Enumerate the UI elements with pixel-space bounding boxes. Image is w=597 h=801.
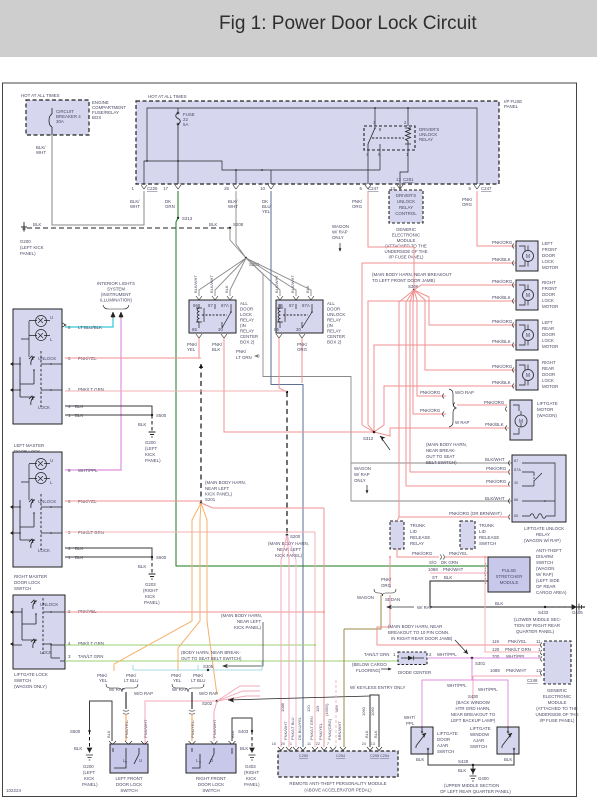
generic electronic module box bottom right xyxy=(544,641,571,684)
svg-text:ILLUMINATION): ILLUMINATION) xyxy=(100,298,132,303)
svg-text:S201: S201 xyxy=(205,497,216,502)
svg-text:PNK/ORG: PNK/ORG xyxy=(484,400,505,405)
wire PNK/YEL from lock relay 85 xyxy=(198,338,200,358)
svg-text:30: 30 xyxy=(218,327,223,332)
svg-text:FRONT: FRONT xyxy=(542,286,557,291)
svg-text:YEL: YEL xyxy=(99,678,108,683)
svg-text:PNK/ORG: PNK/ORG xyxy=(492,364,513,369)
svg-text:U: U xyxy=(139,758,142,763)
svg-text:YEL: YEL xyxy=(187,347,196,352)
svg-text:LEFT: LEFT xyxy=(542,320,553,325)
wire BLK/WHT from breaker to C225 pin 1 xyxy=(52,135,144,225)
svg-text:UNLOCK: UNLOCK xyxy=(397,199,415,204)
svg-text:(WAGON: (WAGON xyxy=(536,566,554,571)
svg-text:SWITCH: SWITCH xyxy=(14,678,31,683)
svg-text:BREAKOUT TO 10 PIN CONN.: BREAKOUT TO 10 PIN CONN. xyxy=(388,630,449,635)
svg-text:PANEL): PANEL) xyxy=(20,251,36,256)
svg-text:S500: S500 xyxy=(156,413,167,418)
svg-text:PANEL): PANEL) xyxy=(144,600,160,605)
ground G203 xyxy=(149,574,156,579)
wire PNK/YEL RM pin6 to riser xyxy=(65,500,201,502)
wire PNK/LT GRN RM pin3 to riser xyxy=(65,531,315,533)
svg-text:RELAY: RELAY xyxy=(240,329,254,334)
GEM pin wire labels xyxy=(490,639,541,683)
svg-text:WINDOW: WINDOW xyxy=(470,732,490,737)
wire DK BLU/YEL riser xyxy=(271,191,303,747)
svg-text:S600: S600 xyxy=(156,555,167,560)
svg-text:LEFT FRONT: LEFT FRONT xyxy=(116,776,143,781)
svg-text:(MAIN BODY HARN, NEAR: (MAIN BODY HARN, NEAR xyxy=(388,624,442,629)
svg-text:PNK/ORG: PNK/ORG xyxy=(420,390,441,395)
svg-text:DK BLU/YEL: DK BLU/YEL xyxy=(297,716,302,740)
svg-text:DOOR: DOOR xyxy=(542,292,555,297)
wire PNK/YEL LM pin6 xyxy=(65,357,201,359)
driver's unlock relay control box xyxy=(389,190,423,223)
svg-text:85: 85 xyxy=(514,514,518,518)
ground G200 (left kick panel) xyxy=(21,222,27,231)
liftgate window ajar switch xyxy=(497,727,519,754)
svg-text:PNK/: PNK/ xyxy=(381,577,392,582)
unlock contact xyxy=(29,356,34,365)
svg-text:22: 22 xyxy=(316,742,320,746)
svg-text:ONLY: ONLY xyxy=(332,235,344,240)
liftgate unlock relay box xyxy=(512,455,566,522)
svg-text:FRONT: FRONT xyxy=(542,247,557,252)
svg-text:PNK/BLK: PNK/BLK xyxy=(492,380,511,385)
svg-text:LT BLU: LT BLU xyxy=(124,678,138,683)
circuit breaker CB4 box xyxy=(26,100,89,135)
svg-text:YEL: YEL xyxy=(262,209,271,214)
svg-text:G405: G405 xyxy=(572,610,583,615)
svg-text:CONTROL: CONTROL xyxy=(395,211,417,216)
svg-text:DOOR: DOOR xyxy=(327,307,340,312)
trunk lid release relay box xyxy=(390,521,404,549)
svg-text:HOT AT ALL TIMES: HOT AT ALL TIMES xyxy=(148,94,187,99)
wire labels PNK/ORG PNK/BLK by motors xyxy=(420,240,513,427)
svg-text:QUARTER PANEL): QUARTER PANEL) xyxy=(516,629,555,634)
svg-text:W/O RAP: W/O RAP xyxy=(134,691,153,696)
svg-text:NEAR BREAKOUT TO: NEAR BREAKOUT TO xyxy=(451,712,496,717)
svg-text:LIFTGATE UNLOCK: LIFTGATE UNLOCK xyxy=(524,526,564,531)
svg-text:1088: 1088 xyxy=(490,668,500,673)
svg-text:TRUNK: TRUNK xyxy=(410,523,425,528)
svg-text:(IN: (IN xyxy=(327,323,333,328)
svg-text:RIGHT FRONT: RIGHT FRONT xyxy=(196,776,226,781)
svg-text:ANTI-THEFT: ANTI-THEFT xyxy=(536,548,562,553)
svg-text:STRETCHER: STRETCHER xyxy=(496,574,523,579)
svg-text:BLK: BLK xyxy=(138,564,146,569)
svg-text:BOX 2): BOX 2) xyxy=(327,340,342,345)
svg-text:BLK: BLK xyxy=(138,422,146,427)
svg-text:30: 30 xyxy=(514,481,518,485)
svg-text:S200: S200 xyxy=(290,534,301,539)
svg-text:ELECTRONIC: ELECTRONIC xyxy=(392,233,420,238)
relay internals xyxy=(522,463,555,516)
wire BLK pins 4/1 to S500 xyxy=(65,406,152,415)
svg-text:S433: S433 xyxy=(538,610,549,615)
wire PNK/LT GRN riser to module pin 11 xyxy=(314,532,316,747)
right rear door lock motor xyxy=(516,360,538,390)
svg-text:ORG: ORG xyxy=(352,204,363,209)
svg-text:1: 1 xyxy=(393,652,396,657)
svg-text:SEDAN: SEDAN xyxy=(385,597,400,602)
svg-text:(LEFT SIDE: (LEFT SIDE xyxy=(536,578,560,583)
svg-text:LID: LID xyxy=(479,529,486,534)
right master door lock switch xyxy=(13,452,62,567)
svg-text:119: 119 xyxy=(315,705,320,712)
svg-text:C247: C247 xyxy=(481,186,492,191)
svg-text:PNK/LT GRN: PNK/LT GRN xyxy=(505,647,531,652)
wire PNK/ORG (OR BRN/WHT) into 85 xyxy=(399,516,510,518)
wire gray staircase to liftgate unlock relay xyxy=(246,258,512,463)
svg-text:LIFTGATE: LIFTGATE xyxy=(437,731,458,736)
svg-text:LOCK: LOCK xyxy=(38,405,50,410)
svg-text:RIGHT MASTER: RIGHT MASTER xyxy=(14,574,47,579)
svg-text:I/P FUSE PANEL): I/P FUSE PANEL) xyxy=(540,718,576,723)
svg-text:BLK: BLK xyxy=(416,757,424,762)
relay coil xyxy=(405,128,411,144)
svg-text:PNK/BLK: PNK/BLK xyxy=(492,257,511,262)
wire PNK/LT BLU pale blue distribution xyxy=(133,661,262,670)
svg-text:NEAR LEFT: NEAR LEFT xyxy=(277,547,301,552)
svg-text:BLK: BLK xyxy=(504,757,512,762)
svg-text:WHT: WHT xyxy=(130,204,140,209)
svg-text:DOOR: DOOR xyxy=(542,332,555,337)
left front door lock switch box xyxy=(110,744,148,773)
liftgate door ajar switch xyxy=(411,727,433,754)
svg-text:12: 12 xyxy=(536,668,541,673)
svg-text:KICK: KICK xyxy=(84,776,94,781)
svg-text:LIFTGATE LOCK: LIFTGATE LOCK xyxy=(14,672,48,677)
svg-text:REAR: REAR xyxy=(542,366,554,371)
svg-text:S429: S429 xyxy=(458,759,469,764)
rotated labels BLK/WHT on relay coil wires xyxy=(193,275,310,293)
svg-text:PNK/ORG: PNK/ORG xyxy=(420,408,441,413)
svg-text:RELAY: RELAY xyxy=(419,137,433,142)
svg-text:W/ KEYLESS ENTRY ONLY: W/ KEYLESS ENTRY ONLY xyxy=(350,685,405,690)
svg-text:PNK/YEL: PNK/YEL xyxy=(508,639,527,644)
wire BLK right front switch to S403 xyxy=(232,718,252,741)
svg-text:TRUNK: TRUNK xyxy=(479,523,494,528)
svg-text:(INSTRUMENT: (INSTRUMENT xyxy=(101,292,132,297)
svg-text:G200: G200 xyxy=(83,764,94,769)
connector arcs at motor inputs xyxy=(443,244,515,431)
svg-text:TAN/LT GRN: TAN/LT GRN xyxy=(364,652,389,657)
svg-text:HOT AT ALL TIMES: HOT AT ALL TIMES xyxy=(21,93,60,98)
svg-text:17: 17 xyxy=(163,186,168,191)
svg-text:20: 20 xyxy=(281,742,285,746)
wire fan S200 to module pins PNK/WHT PNK/LT BLU xyxy=(281,535,287,747)
connector pin row under fuse panel xyxy=(141,185,480,189)
svg-text:BOX: BOX xyxy=(92,115,101,120)
svg-text:MOTOR: MOTOR xyxy=(542,304,558,309)
svg-text:LOCK: LOCK xyxy=(542,298,554,303)
svg-text:(WAGON): (WAGON) xyxy=(537,413,557,418)
svg-text:U: U xyxy=(50,315,53,320)
svg-text:LOCK: LOCK xyxy=(542,338,554,343)
left master door lock switch xyxy=(13,309,62,424)
arrow to interior lights 1 xyxy=(111,312,115,318)
svg-text:LT BLU/BLK: LT BLU/BLK xyxy=(78,325,102,330)
pins left master xyxy=(62,323,66,327)
wire BRN/WHT olive riser xyxy=(343,629,345,747)
title bar xyxy=(0,0,597,57)
svg-text:RELAY: RELAY xyxy=(399,205,413,210)
svg-text:RIGHT: RIGHT xyxy=(542,280,556,285)
wire WHT/PPL violet to right master xyxy=(65,318,121,470)
svg-text:OF LEFT REAR QUARTER PANEL): OF LEFT REAR QUARTER PANEL) xyxy=(440,789,511,794)
svg-text:(RIGHT: (RIGHT xyxy=(143,588,158,593)
ground G200 left kick xyxy=(149,432,156,437)
wire 1088 PNK/WHT to GEM 12 xyxy=(473,676,541,700)
svg-text:M: M xyxy=(526,293,530,299)
svg-text:WAGON: WAGON xyxy=(354,466,371,471)
all door unlock relay box xyxy=(276,300,323,333)
svg-text:1: 1 xyxy=(290,742,292,746)
svg-text:BLK: BLK xyxy=(212,347,220,352)
svg-text:ORG: ORG xyxy=(462,202,473,207)
svg-text:BLK: BLK xyxy=(224,285,229,293)
svg-text:120: 120 xyxy=(306,705,311,712)
svg-text:TION OF RIGHT REAR: TION OF RIGHT REAR xyxy=(514,623,560,628)
svg-text:AJAR: AJAR xyxy=(437,743,448,748)
wire BLK ajar switches to S429 xyxy=(428,754,514,765)
svg-text:MOTOR: MOTOR xyxy=(542,265,558,270)
wire TAN/LT GRN LG pin3 xyxy=(65,658,401,661)
svg-text:S208: S208 xyxy=(233,222,244,227)
svg-text:G403: G403 xyxy=(245,764,256,769)
svg-text:PANEL: PANEL xyxy=(504,104,519,109)
wire fan S201 PNK/YEL to front switch braces xyxy=(114,503,201,671)
wire BLK left front switch to S500 xyxy=(90,701,113,741)
svg-text:BLK: BLK xyxy=(373,730,378,738)
svg-text:BLK: BLK xyxy=(209,222,217,227)
svg-text:(WAGON ONLY): (WAGON ONLY) xyxy=(14,684,47,689)
svg-text:(BACK WINDOW: (BACK WINDOW xyxy=(456,700,491,705)
svg-text:AJAR: AJAR xyxy=(473,738,484,743)
svg-text:10: 10 xyxy=(260,186,265,191)
svg-text:M: M xyxy=(526,373,530,379)
wire PNK/ORG pin5 C247 to LF motor xyxy=(477,191,516,246)
svg-text:W/O RAP: W/O RAP xyxy=(455,390,474,395)
svg-text:RELAY: RELAY xyxy=(240,318,254,323)
svg-text:W/O RAP: W/O RAP xyxy=(199,691,218,696)
svg-text:11: 11 xyxy=(307,742,311,746)
ground G403 right front xyxy=(249,748,256,760)
arrow to interior lights 2 xyxy=(119,312,123,318)
svg-text:WHT/PPL: WHT/PPL xyxy=(447,683,467,688)
svg-text:PNK/WHT: PNK/WHT xyxy=(443,567,464,572)
svg-text:C281: C281 xyxy=(403,177,414,182)
svg-text:C225: C225 xyxy=(147,186,158,191)
svg-text:3: 3 xyxy=(68,654,71,659)
svg-text:6: 6 xyxy=(360,186,363,191)
svg-text:(WAGON W/ RAP): (WAGON W/ RAP) xyxy=(524,538,561,543)
svg-text:S305: S305 xyxy=(203,664,214,669)
svg-text:WAGON: WAGON xyxy=(332,224,349,229)
diode center box xyxy=(398,652,427,665)
svg-text:TAN/LT GRN: TAN/LT GRN xyxy=(78,654,103,659)
svg-text:DRIVER'S: DRIVER'S xyxy=(396,193,416,198)
svg-text:NEAR LEFT: NEAR LEFT xyxy=(205,486,229,491)
svg-text:G200: G200 xyxy=(20,239,31,244)
svg-text:REMOTE ANTI-THEFT PERSONALITY: REMOTE ANTI-THEFT PERSONALITY MODULE xyxy=(289,781,386,786)
svg-text:(LEFT: (LEFT xyxy=(145,446,158,451)
svg-text:RELAY: RELAY xyxy=(327,318,341,323)
svg-text:C250: C250 xyxy=(299,754,308,758)
svg-text:CENTER: CENTER xyxy=(240,334,258,339)
svg-text:PNK/ORG (OR BRN/WHT): PNK/ORG (OR BRN/WHT) xyxy=(449,511,502,516)
dashed option wire 1 : lock 85 to S201 xyxy=(200,364,202,503)
svg-text:KICK PANEL): KICK PANEL) xyxy=(234,625,262,630)
svg-text:RELEASE: RELEASE xyxy=(410,535,430,540)
wire ST BLK into pulse stretcher xyxy=(430,581,585,607)
wire PNK/ORG into 87A from S306 fan xyxy=(410,471,510,473)
svg-text:(MAIN BODY HARN, NEAR BREAKOUT: (MAIN BODY HARN, NEAR BREAKOUT xyxy=(372,272,452,277)
svg-text:SWITCH: SWITCH xyxy=(202,788,219,793)
svg-text:W/ RAP: W/ RAP xyxy=(109,687,125,692)
module pin connectors xyxy=(278,747,382,751)
svg-text:DOOR LOCK: DOOR LOCK xyxy=(198,782,224,787)
svg-text:G203: G203 xyxy=(145,582,156,587)
svg-text:S/O: S/O xyxy=(429,560,437,565)
svg-text:LOCK: LOCK xyxy=(542,378,554,383)
svg-text:KICK: KICK xyxy=(145,452,155,457)
svg-text:ELECTRONIC: ELECTRONIC xyxy=(543,694,571,699)
svg-text:DK GRN: DK GRN xyxy=(441,560,458,565)
svg-text:SWITCH: SWITCH xyxy=(437,749,454,754)
svg-text:WHT/PPL: WHT/PPL xyxy=(478,687,498,692)
svg-text:W/ RAP: W/ RAP xyxy=(417,605,433,610)
svg-text:BLK: BLK xyxy=(74,746,82,751)
svg-text:CARGO AREA): CARGO AREA) xyxy=(536,590,567,595)
svg-text:87: 87 xyxy=(289,303,294,308)
svg-text:PNK/ORG: PNK/ORG xyxy=(486,466,507,471)
svg-text:CENTER: CENTER xyxy=(327,334,345,339)
wire fan S306 PNK/ORG to motors xyxy=(399,285,516,517)
dashed option wire 2 : to S200 xyxy=(286,391,288,393)
svg-text:SWITCH: SWITCH xyxy=(470,744,487,749)
svg-text:(ATTACHED TO THE: (ATTACHED TO THE xyxy=(385,244,427,249)
svg-text:ONLY: ONLY xyxy=(354,478,366,483)
svg-text:102224: 102224 xyxy=(6,788,22,793)
svg-text:BLK: BLK xyxy=(305,285,310,293)
svg-text:5: 5 xyxy=(469,186,472,191)
wire 1088 PNK/WHT into pulse stretcher xyxy=(430,572,488,574)
svg-text:ALL: ALL xyxy=(240,301,248,306)
svg-text:87: 87 xyxy=(514,459,518,463)
svg-text:BELT SWITCH): BELT SWITCH) xyxy=(426,460,457,465)
pink option feeds into S202 xyxy=(217,686,260,701)
brace W/O RAP / W RAP liftgate options xyxy=(449,389,456,427)
svg-text:1060: 1060 xyxy=(370,706,375,716)
node S204 xyxy=(245,257,247,259)
wire fan S204 to relay coils BLK/WHT xyxy=(199,258,311,296)
inner wire pin1 to fuse xyxy=(144,161,380,184)
black arrow into S202 from keyless box xyxy=(228,696,370,700)
svg-text:PNK/LT BLU: PNK/LT BLU xyxy=(290,717,295,740)
svg-text:PNK/ORG: PNK/ORG xyxy=(412,551,433,556)
svg-text:5A: 5A xyxy=(183,122,188,127)
svg-text:HTR GRD HARN,: HTR GRD HARN, xyxy=(456,706,491,711)
svg-text:LOCK: LOCK xyxy=(542,259,554,264)
svg-text:DISARM: DISARM xyxy=(536,554,553,559)
svg-text:PNK/ORG: PNK/ORG xyxy=(486,479,507,484)
svg-text:MOTOR: MOTOR xyxy=(542,344,558,349)
svg-text:BRN/WHT: BRN/WHT xyxy=(337,721,342,740)
svg-text:G200: G200 xyxy=(145,440,156,445)
circuit breaker symbol xyxy=(51,108,53,135)
svg-text:C247: C247 xyxy=(368,186,379,191)
svg-text:ST: ST xyxy=(432,575,438,580)
svg-text:W RAP: W RAP xyxy=(455,420,469,425)
svg-text:SWITCH: SWITCH xyxy=(120,788,137,793)
svg-text:(RIGHT: (RIGHT xyxy=(244,770,259,775)
svg-text:DOOR: DOOR xyxy=(542,253,555,258)
svg-text:PNK/YEL: PNK/YEL xyxy=(449,551,468,556)
svg-text:PANEL): PANEL) xyxy=(244,782,260,787)
svg-text:OUT TO SEAT: OUT TO SEAT xyxy=(426,454,455,459)
svg-text:PNK/YEL-: PNK/YEL- xyxy=(190,719,195,738)
svg-text:87A: 87A xyxy=(514,468,521,472)
svg-text:ORG: ORG xyxy=(297,347,308,352)
fuse 22 xyxy=(176,113,181,184)
wire BLK to ground G400 xyxy=(472,765,474,776)
wire sedan branch to GEM 11 xyxy=(377,595,541,645)
node S208 xyxy=(229,227,231,229)
svg-text:86: 86 xyxy=(514,498,518,502)
svg-text:BLK/WHT: BLK/WHT xyxy=(485,496,505,501)
svg-text:(MAIN BODY HARN,: (MAIN BODY HARN, xyxy=(426,442,467,447)
svg-text:LEFT: LEFT xyxy=(542,241,553,246)
svg-text:GRN: GRN xyxy=(165,204,175,209)
rotated wire labels above module xyxy=(280,702,378,740)
svg-text:KICK: KICK xyxy=(145,594,155,599)
svg-text:86: 86 xyxy=(278,303,283,308)
svg-text:W/ RAP: W/ RAP xyxy=(172,687,188,692)
svg-text:SWITCH: SWITCH xyxy=(536,560,553,565)
svg-text:WHT/PPL: WHT/PPL xyxy=(78,468,98,473)
svg-text:86: 86 xyxy=(193,303,198,308)
svg-text:W/ RAP: W/ RAP xyxy=(332,230,348,235)
relay switch arm xyxy=(368,128,380,150)
svg-text:PNK/WHT: PNK/WHT xyxy=(283,721,288,740)
svg-text:UNDERSIDE OF THE: UNDERSIDE OF THE xyxy=(535,712,578,717)
svg-text:MOTOR: MOTOR xyxy=(537,407,553,412)
svg-text:BLK/WHT: BLK/WHT xyxy=(485,457,505,462)
wire WHT/PPL S301 to ajar switches xyxy=(422,658,508,727)
svg-text:C254: C254 xyxy=(380,754,389,758)
svg-text:S312: S312 xyxy=(363,436,374,441)
svg-text:PULSE: PULSE xyxy=(502,568,516,573)
svg-text:NEAR LEFT: NEAR LEFT xyxy=(237,619,261,624)
I/P fuse panel box xyxy=(136,101,499,184)
pulse stretcher module box xyxy=(488,557,530,592)
svg-text:REAR: REAR xyxy=(542,326,554,331)
svg-text:PNK/: PNK/ xyxy=(236,349,247,354)
svg-text:PNK/WHT: PNK/WHT xyxy=(212,719,217,738)
svg-text:UNDERSIDE OF THE: UNDERSIDE OF THE xyxy=(384,249,427,254)
svg-text:BLK/WHT: BLK/WHT xyxy=(209,275,214,293)
svg-text:C248: C248 xyxy=(527,678,538,683)
svg-text:LIFTGATE: LIFTGATE xyxy=(470,726,491,731)
svg-text:BOX 2): BOX 2) xyxy=(240,340,255,345)
svg-text:MODULE: MODULE xyxy=(548,700,567,705)
svg-text:OF REAR: OF REAR xyxy=(536,584,556,589)
svg-text:LOCK: LOCK xyxy=(240,312,252,317)
svg-text:S430: S430 xyxy=(468,694,479,699)
svg-text:BLK: BLK xyxy=(33,222,41,227)
